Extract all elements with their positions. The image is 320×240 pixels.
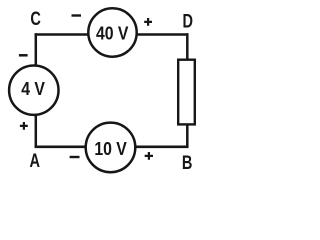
svg-text:B: B — [182, 151, 193, 174]
svg-text:A: A — [30, 149, 41, 172]
resistor R (right branch) — [178, 60, 195, 125]
polarity minus (10 V left) — [70, 156, 80, 158]
wire top (C to D through 40 V source) — [35, 33, 189, 36]
polarity minus (4 V top) — [19, 54, 28, 57]
wire left (C to A through 4 V source) — [35, 33, 38, 148]
svg-text:4 V: 4 V — [21, 78, 45, 100]
wire right (D to B through resistor) — [186, 33, 189, 148]
polarity minus (40 V left) — [72, 14, 82, 16]
svg-text:D: D — [182, 9, 193, 32]
svg-text:C: C — [30, 7, 41, 30]
voltage source 40 V (top) — [88, 8, 136, 56]
svg-text:10 V: 10 V — [94, 138, 127, 160]
voltage source 10 V (bottom) — [86, 123, 136, 173]
svg-text:40 V: 40 V — [96, 22, 129, 44]
voltage source 4 V (left) — [9, 66, 58, 115]
polarity plus (10 V right) — [145, 152, 153, 160]
polarity plus (4 V bottom) — [20, 122, 28, 130]
polarity plus (40 V right) — [144, 18, 152, 26]
wire bottom (A to B through 10 V source) — [35, 146, 189, 149]
